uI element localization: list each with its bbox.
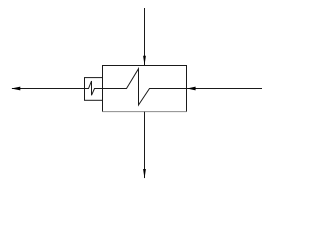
wire: left horizontal segment xyxy=(12,88,85,90)
nonlinearity symbol in U1 xyxy=(103,69,187,105)
arrowhead on top wire (points down onto U1) xyxy=(143,56,146,65)
nonlinearity symbol in U2 xyxy=(85,81,103,95)
arrowhead on left wire (points left) xyxy=(11,87,20,91)
wire: right horizontal segment xyxy=(187,88,263,90)
arrowhead on bottom wire (points down) xyxy=(143,169,146,179)
wire: top vertical segment xyxy=(144,8,146,66)
arrowhead on right wire (points left into U1) xyxy=(187,87,196,91)
wire: bottom vertical segment xyxy=(144,112,146,178)
block U1 (nonlinear element body) xyxy=(103,66,187,112)
block U2 (small attached element body) xyxy=(85,78,103,101)
